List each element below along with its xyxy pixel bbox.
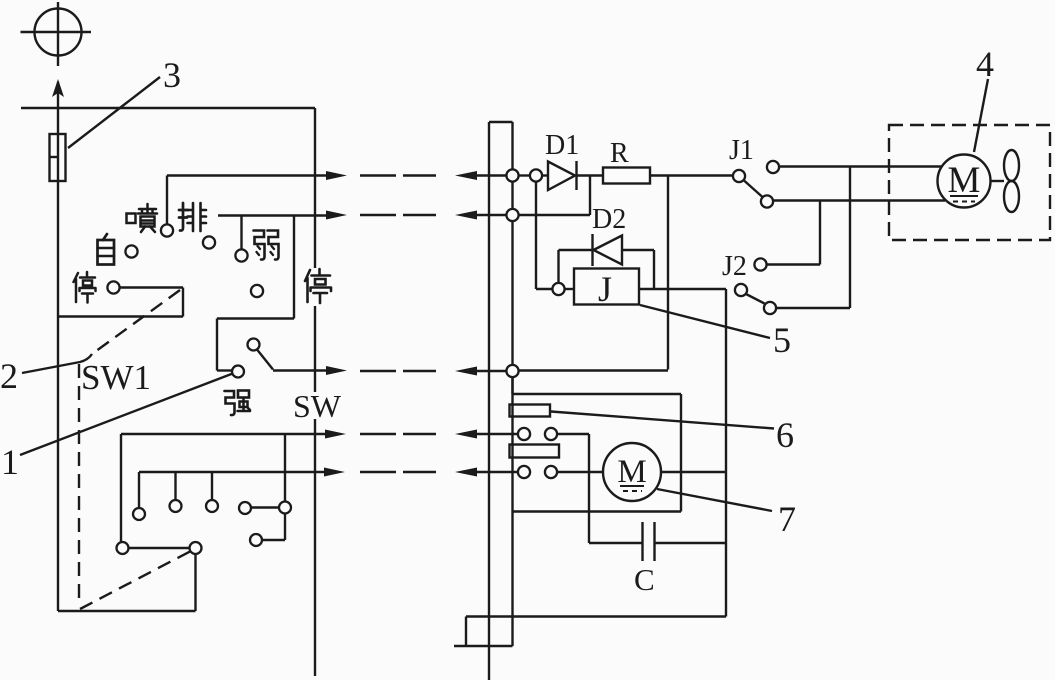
svg-text:D1: D1 <box>545 130 579 161</box>
svg-text:2: 2 <box>0 356 18 396</box>
svg-text:D2: D2 <box>592 204 626 235</box>
svg-text:C: C <box>634 562 655 597</box>
svg-text:R: R <box>610 138 629 169</box>
svg-text:M: M <box>948 160 981 201</box>
svg-text:5: 5 <box>773 320 791 360</box>
svg-text:1: 1 <box>1 442 19 482</box>
svg-text:SW: SW <box>293 388 342 424</box>
svg-text:3: 3 <box>163 55 181 95</box>
svg-text:M: M <box>617 454 646 490</box>
svg-text:6: 6 <box>776 415 794 455</box>
svg-text:SW1: SW1 <box>81 358 151 397</box>
svg-text:4: 4 <box>976 44 994 84</box>
svg-text:J1: J1 <box>729 135 754 166</box>
svg-text:J2: J2 <box>722 251 747 282</box>
svg-text:J: J <box>598 269 612 309</box>
svg-text:7: 7 <box>778 499 796 539</box>
